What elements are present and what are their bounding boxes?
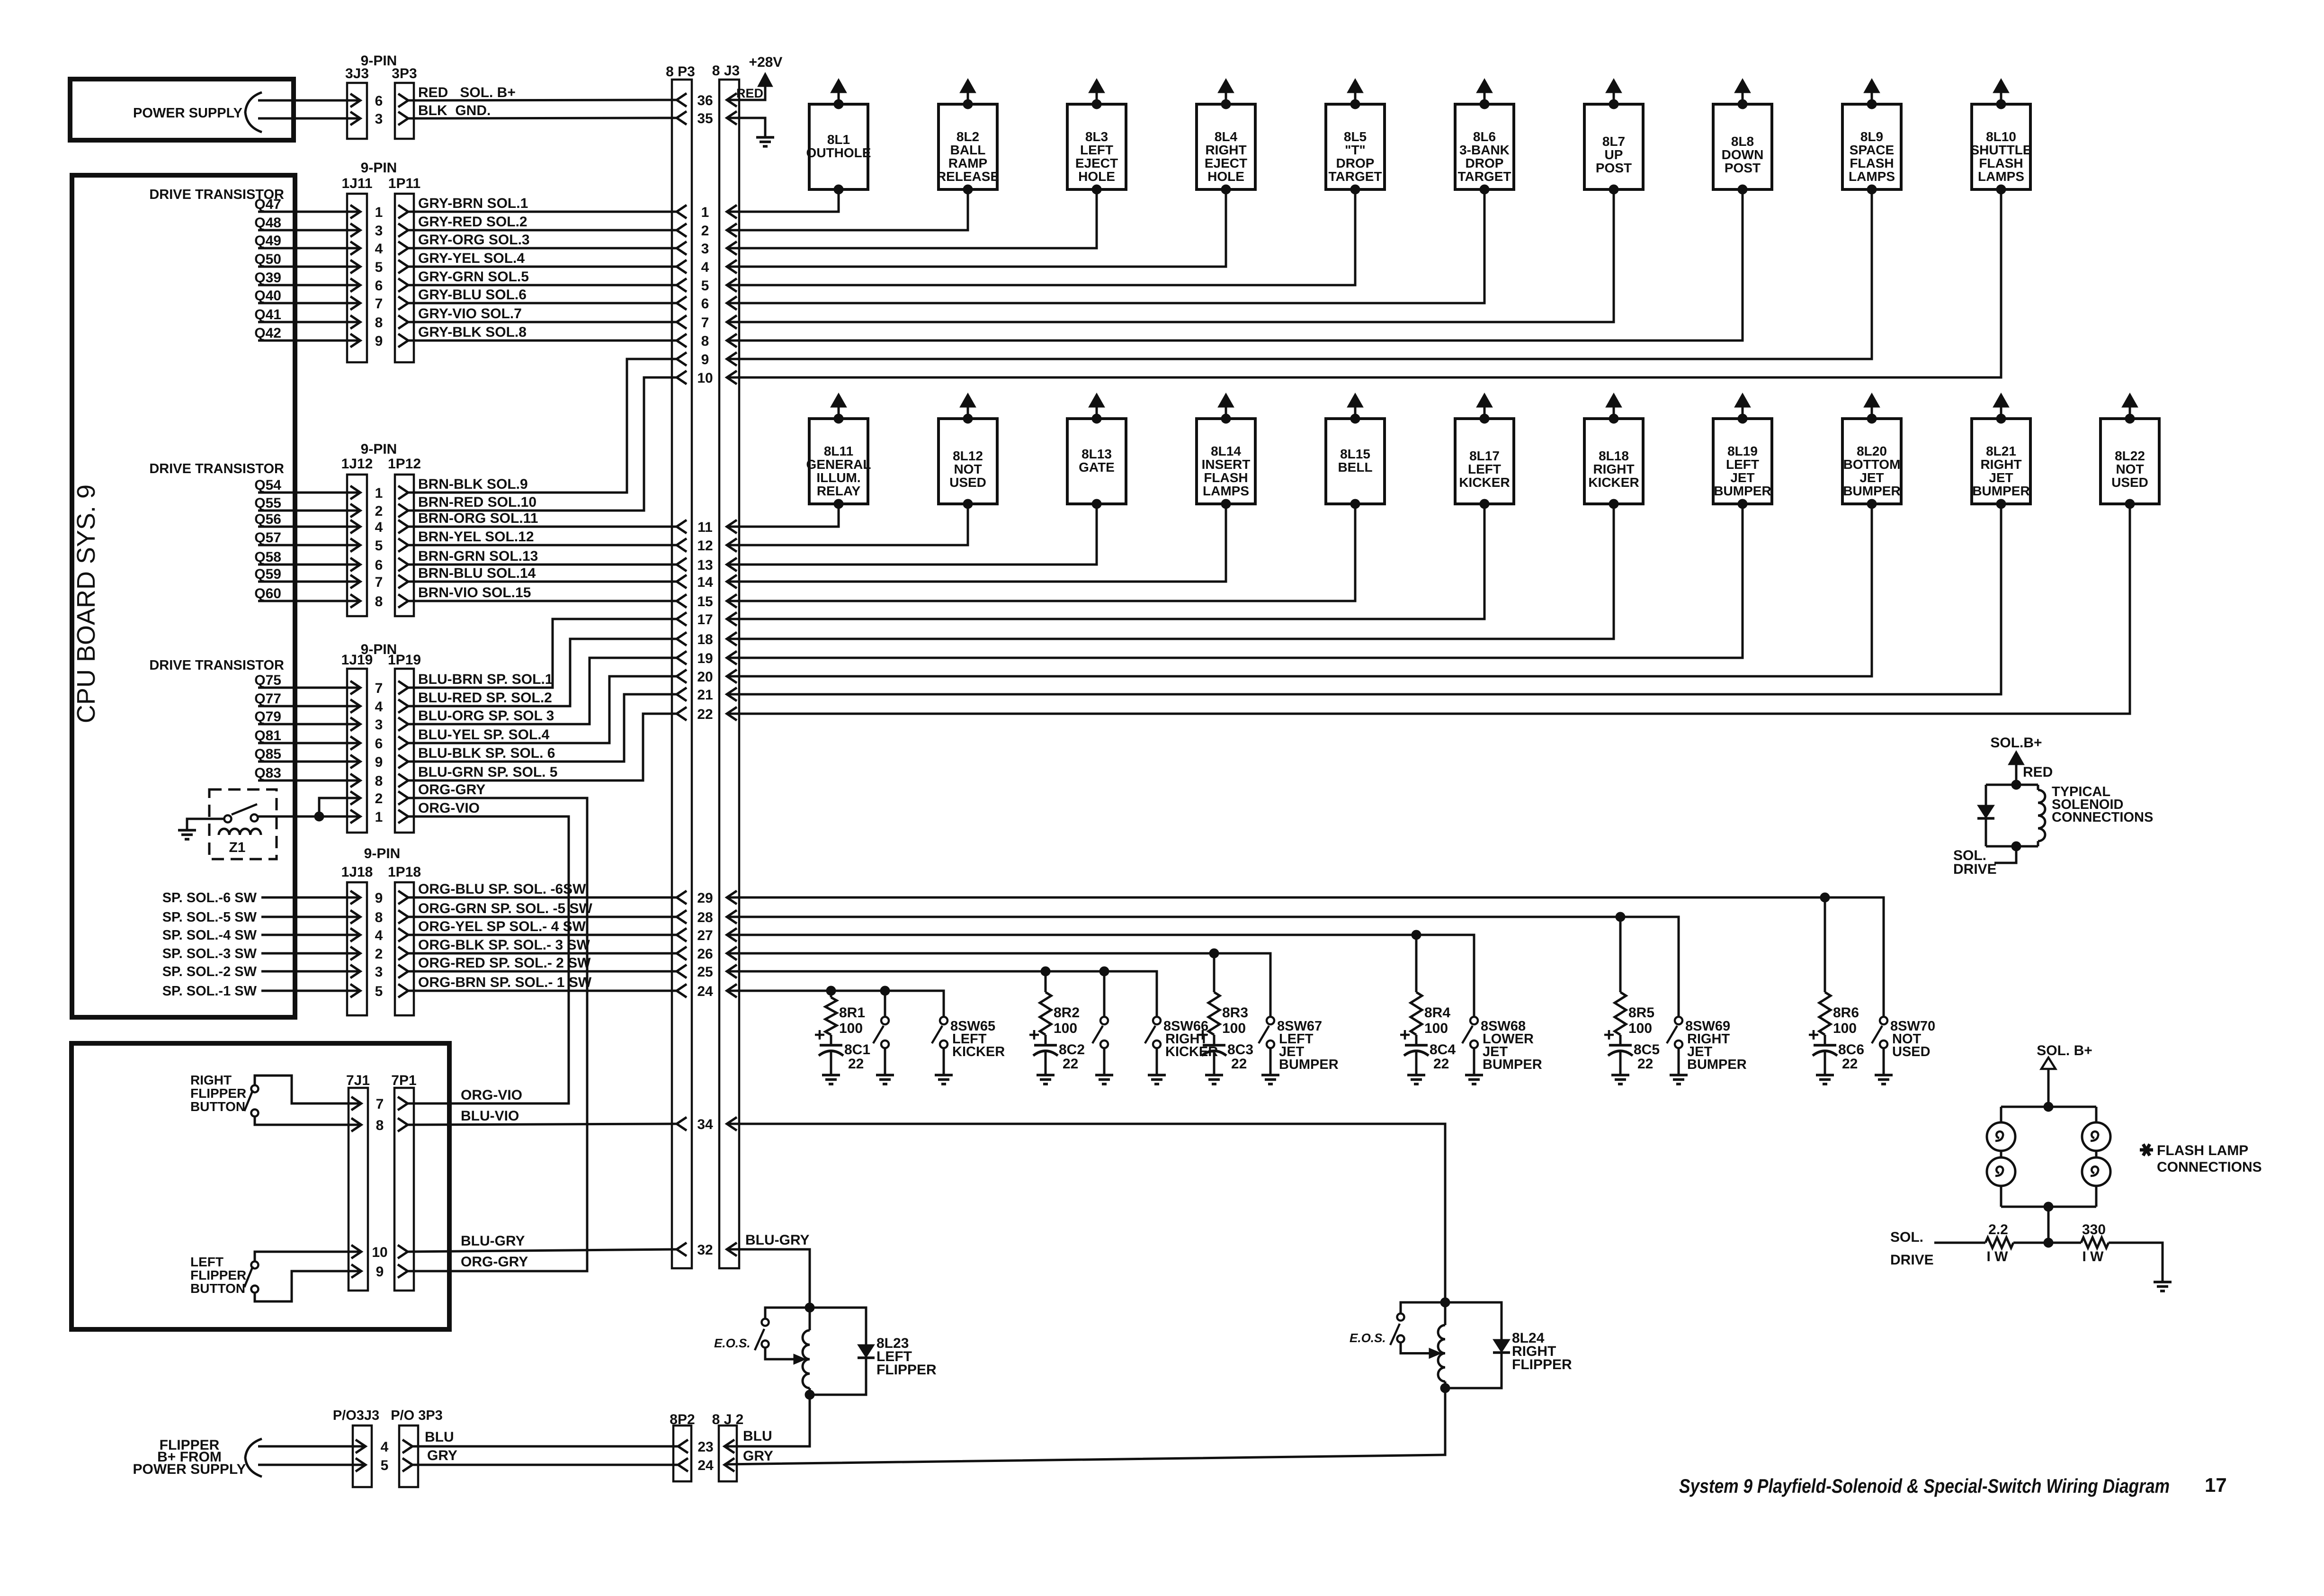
wire 8SW67 to ground bbox=[1269, 1048, 1272, 1075]
ground 8SW70 bbox=[1875, 1074, 1893, 1076]
svg-text:GRY-GRN SOL.5: GRY-GRN SOL.5 bbox=[418, 269, 529, 285]
pin 27 8P3 bbox=[677, 928, 687, 941]
pin 23 8P2 bbox=[678, 1440, 688, 1453]
svg-text:OUTHOLE: OUTHOLE bbox=[806, 145, 871, 160]
solenoid box 8L5 bbox=[1326, 104, 1385, 189]
solenoid box 8L6 bbox=[1455, 104, 1514, 189]
svg-text:3: 3 bbox=[375, 717, 383, 733]
svg-text:100: 100 bbox=[1222, 1021, 1246, 1036]
svg-text:17: 17 bbox=[697, 612, 713, 628]
connector 1P12 bbox=[395, 475, 414, 616]
pin 3 1P18 bbox=[398, 965, 408, 978]
switch 8SW67 bbox=[1267, 1017, 1274, 1024]
junction dot 8R5 bbox=[1616, 912, 1625, 922]
wire 8R3 top bbox=[1213, 953, 1216, 992]
pin 34 8J3 bbox=[727, 1117, 737, 1130]
solenoid bottom dot 8L19 bbox=[1738, 499, 1747, 509]
svg-text:8: 8 bbox=[375, 315, 383, 331]
junction dot switch x1869 bbox=[880, 986, 890, 995]
svg-text:BLU-RED SP. SOL.2: BLU-RED SP. SOL.2 bbox=[418, 690, 552, 706]
svg-text:8L14: 8L14 bbox=[1211, 444, 1241, 458]
wire BRN-RED SOL.10 to 8P3 pin 10 bbox=[408, 377, 677, 511]
pin 5 P/O 3P3 bbox=[402, 1458, 412, 1471]
right flipper button contact bottom bbox=[251, 1110, 259, 1117]
solenoid arrow 8L7 bbox=[1606, 79, 1622, 93]
wire SP.SOL 1P19 y1608 to 8P3 pin 21 bbox=[408, 694, 677, 762]
svg-text:JET: JET bbox=[1989, 470, 2013, 485]
resistor 8R3 bbox=[1208, 992, 1220, 1035]
wire ORG-BLU SP. SOL. -6SW 1P18 to 8P3 pin 29 bbox=[408, 897, 677, 899]
svg-text:100: 100 bbox=[1424, 1021, 1448, 1036]
svg-text:10: 10 bbox=[697, 370, 713, 386]
wire 8R4 to 8C4 bbox=[1415, 1035, 1418, 1045]
svg-text:7P1: 7P1 bbox=[391, 1073, 416, 1088]
wire branch to 1J19 pin 2 bbox=[319, 798, 360, 816]
wire Q83 to 1J19 bbox=[258, 780, 360, 782]
pin 4 P/O3J3 bbox=[356, 1440, 366, 1453]
wire SP.SOL 1P19 y1648 to 8P3 pin 22 bbox=[408, 714, 677, 780]
relay Z1 dashed box bbox=[209, 789, 277, 859]
wire 8L3 to 8J3 pin 3 bbox=[727, 189, 1097, 248]
pin 8 8J3 bbox=[727, 334, 737, 347]
solenoid top dot 8L5 bbox=[1350, 99, 1360, 109]
svg-text:EJECT: EJECT bbox=[1075, 156, 1118, 170]
svg-text:RIGHT: RIGHT bbox=[1205, 143, 1246, 157]
pin 2 1P19 bbox=[398, 791, 408, 805]
pin 19 8J3 bbox=[727, 651, 737, 664]
wire SP.SOL 1P19 y1529 to 8P3 pin 19 bbox=[408, 658, 677, 724]
connector 7P1 bbox=[394, 1088, 414, 1291]
solenoid arrow 8L17 bbox=[1476, 393, 1493, 407]
wire 330 to ground bbox=[2109, 1243, 2163, 1281]
wire GRY-BLU SOL.6 1P11 to 8P3 pin 6 bbox=[408, 302, 677, 305]
pin 8 1P18 bbox=[398, 910, 408, 924]
wire SP. SOL.-3 SW to 1J18 bbox=[261, 952, 360, 955]
wire ORG-GRY 7P1 pin 9 bbox=[408, 1270, 587, 1273]
svg-text:POWER SUPPLY: POWER SUPPLY bbox=[133, 106, 242, 121]
wire 8L22 to 8J3 pin 22 bbox=[727, 504, 2130, 714]
pin 8 8P3 bbox=[677, 334, 687, 347]
svg-text:8C2: 8C2 bbox=[1059, 1042, 1085, 1058]
wire 8R3 to 8C3 bbox=[1213, 1035, 1216, 1045]
wire 8C6 to ground bbox=[1824, 1051, 1826, 1075]
ground 8C4 bbox=[1407, 1074, 1425, 1076]
arrow SOL. B+ (flash) bbox=[2041, 1058, 2056, 1069]
connector 8J3 bbox=[719, 80, 739, 1268]
svg-text:8L17: 8L17 bbox=[1469, 448, 1500, 463]
svg-text:POST: POST bbox=[1725, 161, 1761, 175]
pin 1 1P19 bbox=[398, 810, 408, 823]
svg-text:ORG-RED SP. SOL.- 2 SW: ORG-RED SP. SOL.- 2 SW bbox=[418, 955, 591, 971]
svg-text:1J11: 1J11 bbox=[341, 176, 372, 191]
pin 35 8P3 bbox=[677, 111, 687, 125]
svg-text:8 J3: 8 J3 bbox=[712, 63, 740, 79]
wire 8SW68 to ground bbox=[1473, 1048, 1475, 1075]
pin 26 8P3 bbox=[677, 947, 687, 960]
svg-text:INSERT: INSERT bbox=[1202, 457, 1251, 472]
svg-text:8L20: 8L20 bbox=[1857, 444, 1887, 458]
svg-text:RAMP: RAMP bbox=[948, 156, 987, 170]
svg-text:LAMPS: LAMPS bbox=[1203, 484, 1249, 498]
wire 8L1 to 8J3 pin 1 bbox=[727, 189, 839, 212]
pin 34 8P3 bbox=[677, 1117, 687, 1130]
svg-text:UP: UP bbox=[1605, 147, 1623, 162]
svg-text:100: 100 bbox=[1833, 1021, 1857, 1036]
wire Z1 switch to 1J19 pin 1 bbox=[258, 816, 360, 818]
wire GRY P/O3P3 to 8P2 pin 24 bbox=[412, 1464, 678, 1466]
solenoid box 8L7 bbox=[1584, 104, 1643, 189]
solenoid arrow 8L22 bbox=[2122, 393, 2138, 407]
svg-text:GRY: GRY bbox=[743, 1448, 773, 1464]
pin 4 8J3 bbox=[727, 260, 737, 273]
connector P/O 3P3 bbox=[399, 1426, 418, 1487]
svg-text:35: 35 bbox=[697, 111, 713, 126]
pin 25 8P3 bbox=[677, 965, 687, 978]
svg-text:DRIVE TRANSISTOR: DRIVE TRANSISTOR bbox=[149, 658, 284, 673]
junction dot bottom left flipper 8L23 bbox=[805, 1390, 814, 1399]
pin 12 8J3 bbox=[727, 538, 737, 552]
svg-text:RELEASE: RELEASE bbox=[937, 169, 999, 184]
solenoid top dot 8L14 bbox=[1221, 414, 1231, 423]
wire 8R2 to 8C2 bbox=[1045, 1035, 1047, 1045]
svg-text:FLIPPER: FLIPPER bbox=[1512, 1357, 1572, 1372]
wire 8J3 pin 34 BLU-VIO to right flipper bbox=[727, 1124, 1445, 1302]
solenoid box 8L17 bbox=[1455, 419, 1514, 504]
solenoid box 8L11 bbox=[809, 419, 868, 504]
wire ORG-GRY 1P19 to 7P1 pin 9 bbox=[408, 798, 587, 1271]
svg-text:3: 3 bbox=[701, 241, 709, 257]
wire Q81 to 1J19 bbox=[258, 742, 360, 744]
wire left flipper bottom contact to 7J1 pin 9 bbox=[255, 1271, 361, 1301]
wire 8C4 to ground bbox=[1415, 1051, 1418, 1075]
svg-text:FLASH: FLASH bbox=[1204, 470, 1248, 485]
pin 3 1J19 bbox=[350, 717, 360, 731]
svg-text:Q77: Q77 bbox=[254, 691, 281, 707]
solenoid bottom dot 8L17 bbox=[1480, 499, 1489, 509]
wire BLK GND. 3P3 to 8P3 pin 35 bbox=[408, 118, 677, 118]
connector 8P2 bbox=[673, 1426, 691, 1481]
pin 4 1P12 bbox=[398, 520, 408, 533]
wire Q48 to 1J11 bbox=[258, 229, 360, 232]
svg-text:4: 4 bbox=[375, 699, 383, 715]
solenoid top dot 8L22 bbox=[2125, 414, 2135, 423]
svg-text:29: 29 bbox=[697, 890, 713, 906]
left flipper button contact bottom bbox=[251, 1286, 259, 1293]
pin 15 8P3 bbox=[677, 594, 687, 608]
pin 29 8J3 bbox=[727, 891, 737, 904]
solenoid bottom dot 8L20 bbox=[1867, 499, 1877, 509]
pin 3 1P19 bbox=[398, 717, 408, 731]
solenoid top dot 8L10 bbox=[1996, 99, 2006, 109]
ground 8C6 bbox=[1816, 1074, 1834, 1076]
wire 8L9 to 8J3 pin 9 bbox=[727, 189, 1872, 359]
svg-text:RIGHT: RIGHT bbox=[1593, 462, 1634, 476]
wire 8L11 to 8J3 pin 11 bbox=[727, 504, 839, 527]
wire 8C3 to ground bbox=[1213, 1051, 1216, 1075]
pin 11 8P3 bbox=[677, 520, 687, 533]
svg-text:9-PIN: 9-PIN bbox=[361, 160, 397, 176]
wire 8L7 to 8J3 pin 7 bbox=[727, 189, 1614, 322]
connector 1P18 bbox=[395, 882, 414, 1015]
svg-text:8R3: 8R3 bbox=[1222, 1005, 1248, 1021]
wire BLU P/O3P3 to 8P2 pin 23 bbox=[412, 1445, 678, 1448]
wire Q58 to 1J12 bbox=[258, 564, 360, 566]
junction dot resistor row bbox=[2044, 1238, 2053, 1247]
ground 8SW68 bbox=[1465, 1074, 1483, 1076]
label FLASH LAMP CONNECTIONS bbox=[2140, 1148, 2153, 1152]
solenoid bottom dot 8L12 bbox=[963, 499, 973, 509]
wire 8J3 pin 32 BLU-GRY to left flipper bbox=[727, 1249, 810, 1308]
pin 4 1J18 bbox=[350, 928, 360, 941]
wire BLU-VIO 7P1 pin 8 to 8P3 pin 34 bbox=[408, 1124, 677, 1125]
svg-text:6: 6 bbox=[375, 93, 383, 109]
svg-text:ORG-YEL SP SOL.- 4 SW: ORG-YEL SP SOL.- 4 SW bbox=[418, 919, 586, 934]
connector 8P3 bbox=[672, 80, 692, 1268]
solenoid bottom dot 8L13 bbox=[1092, 499, 1101, 509]
svg-text:SOL.: SOL. bbox=[1890, 1229, 1923, 1245]
svg-text:3: 3 bbox=[375, 964, 383, 980]
connector 3J3 bbox=[347, 83, 367, 139]
svg-text:3J3: 3J3 bbox=[345, 66, 369, 81]
pin 1 8P3 bbox=[677, 205, 687, 218]
svg-text:DRIVE TRANSISTOR: DRIVE TRANSISTOR bbox=[149, 461, 284, 476]
svg-text:BLU-BLK SP. SOL. 6: BLU-BLK SP. SOL. 6 bbox=[418, 745, 555, 761]
solenoid top dot 8L21 bbox=[1996, 414, 2006, 423]
E.O.S. contact bottom left flipper 8L23 bbox=[762, 1341, 769, 1348]
junction dot Z1 wire bbox=[314, 812, 324, 821]
junction dot flash top bbox=[2044, 1102, 2053, 1112]
pin 7 1J11 bbox=[350, 296, 360, 310]
wire SOL.12 1P12 to 8P3 pin 12 bbox=[408, 544, 677, 547]
svg-text:1: 1 bbox=[375, 485, 383, 501]
wire Q55 to 1J12 bbox=[258, 510, 360, 512]
svg-text:22: 22 bbox=[1063, 1056, 1078, 1072]
svg-text:ORG-BRN SP. SOL.- 1 SW: ORG-BRN SP. SOL.- 1 SW bbox=[418, 975, 592, 990]
svg-text:USED: USED bbox=[2111, 475, 2148, 490]
svg-text:USED: USED bbox=[949, 475, 986, 490]
connector 8J2 bbox=[719, 1426, 737, 1481]
pin 5 1J12 bbox=[350, 538, 360, 552]
svg-text:Q83: Q83 bbox=[254, 765, 281, 781]
svg-text:8: 8 bbox=[701, 333, 709, 349]
wire right flipper to 8J2 pin 24 GRY bbox=[724, 1388, 1445, 1464]
wire 8J3 pin 26 to switch 8SW67 bbox=[727, 953, 1270, 1017]
svg-text:ORG-GRN SP. SOL. -5 SW: ORG-GRN SP. SOL. -5 SW bbox=[418, 901, 593, 916]
wire 8L8 to 8J3 pin 8 bbox=[727, 189, 1743, 341]
svg-text:BLU-VIO: BLU-VIO bbox=[461, 1108, 519, 1124]
svg-text:2: 2 bbox=[375, 791, 383, 807]
pin 6 1P12 bbox=[398, 558, 408, 571]
svg-text:SPACE: SPACE bbox=[1850, 143, 1894, 157]
solenoid bottom dot 8L18 bbox=[1609, 499, 1618, 509]
svg-text:18: 18 bbox=[697, 632, 713, 647]
svg-text:BRN-BLU SOL.14: BRN-BLU SOL.14 bbox=[418, 565, 536, 581]
solenoid arrow 8L3 bbox=[1089, 79, 1105, 93]
connector 1J19 bbox=[347, 669, 367, 833]
svg-text:USED: USED bbox=[1892, 1044, 1931, 1059]
solenoid arrow 8L15 bbox=[1347, 393, 1363, 407]
svg-text:8R5: 8R5 bbox=[1628, 1005, 1654, 1021]
pin 4 1J19 bbox=[350, 699, 360, 713]
solenoid arrow 8L13 bbox=[1089, 393, 1105, 407]
wire RED SOL. B+ 3P3 to 8P3 pin 36 bbox=[408, 100, 677, 100]
flash lamp upper right bbox=[2082, 1122, 2110, 1151]
svg-text:BUMPER: BUMPER bbox=[1483, 1057, 1542, 1072]
solenoid bottom dot 8L9 bbox=[1867, 185, 1877, 194]
wire 8R4 top bbox=[1415, 935, 1418, 992]
ground 8J3 pin 35 bbox=[756, 136, 774, 139]
svg-text:DOWN: DOWN bbox=[1722, 147, 1764, 162]
typical solenoid loop bottom bbox=[1986, 845, 2038, 848]
pin 3 8J3 bbox=[727, 242, 737, 255]
svg-text:BLU: BLU bbox=[425, 1429, 454, 1445]
solenoid top dot 8L7 bbox=[1609, 99, 1618, 109]
pin 7 1P12 bbox=[398, 575, 408, 588]
solenoid top dot 8L9 bbox=[1867, 99, 1877, 109]
pin 6 8P3 bbox=[677, 296, 687, 310]
svg-text:FLASH LAMP: FLASH LAMP bbox=[2157, 1143, 2248, 1158]
svg-text:8L3: 8L3 bbox=[1085, 129, 1108, 144]
flipper button box bbox=[72, 1043, 449, 1329]
connector 1J11 bbox=[347, 194, 367, 362]
flash lamp box left bbox=[2000, 1107, 2002, 1123]
wire SOL DRIVE to resistor 2.2 bbox=[1934, 1242, 1985, 1244]
flash lamp lower right bbox=[2082, 1157, 2110, 1186]
wire SOL.15 1P12 to 8P3 pin 15 bbox=[408, 600, 677, 602]
svg-text:Q56: Q56 bbox=[254, 511, 281, 527]
svg-text:24: 24 bbox=[697, 1458, 714, 1473]
svg-text:11: 11 bbox=[697, 520, 713, 535]
svg-text:ILLUM.: ILLUM. bbox=[816, 470, 860, 485]
wire Z1 to ground bbox=[187, 819, 224, 829]
wire Q47 to 1J11 bbox=[258, 211, 360, 213]
ground unnamed switch x2332 bbox=[1095, 1074, 1113, 1076]
pin 5 1P12 bbox=[398, 538, 408, 552]
svg-text:4: 4 bbox=[375, 520, 383, 535]
switch 8SW68 bbox=[1470, 1017, 1478, 1024]
diode left flipper 8L23 bbox=[810, 1308, 866, 1345]
Z1 switch blade bbox=[232, 804, 257, 815]
svg-text:SOL. B+: SOL. B+ bbox=[2037, 1043, 2092, 1058]
solenoid box 8L15 bbox=[1326, 419, 1385, 504]
svg-text:GRY-YEL SOL.4: GRY-YEL SOL.4 bbox=[418, 251, 525, 266]
pin 4 1P11 bbox=[398, 242, 408, 255]
svg-text:3: 3 bbox=[375, 111, 383, 127]
solenoid top dot 8L17 bbox=[1480, 414, 1489, 423]
coil left flipper 8L23 bbox=[809, 1308, 811, 1330]
svg-text:Q39: Q39 bbox=[254, 270, 281, 286]
svg-text:POWER SUPPLY: POWER SUPPLY bbox=[133, 1462, 246, 1477]
pin 24 8J2 bbox=[724, 1458, 734, 1471]
svg-text:FLIPPER: FLIPPER bbox=[876, 1362, 937, 1378]
solenoid arrow 8L2 bbox=[960, 79, 976, 93]
wire ORG-VIO 1P19 to 7P1 pin 7 bbox=[408, 816, 569, 1103]
E.O.S. contact top right flipper 8L24 bbox=[1397, 1314, 1404, 1321]
pin 8 1J19 bbox=[350, 774, 360, 787]
svg-text:7: 7 bbox=[375, 574, 383, 590]
pin 20 8P3 bbox=[677, 670, 687, 683]
pin 7 1P11 bbox=[398, 296, 408, 310]
pin 7 8J3 bbox=[727, 315, 737, 329]
svg-text:BLU-GRN SP. SOL. 5: BLU-GRN SP. SOL. 5 bbox=[418, 764, 558, 780]
solenoid box 8L19 bbox=[1713, 419, 1772, 504]
svg-text:8: 8 bbox=[375, 773, 383, 789]
wire 8J3 pin 28 to switch 8SW69 bbox=[727, 917, 1679, 1017]
svg-text:8: 8 bbox=[375, 910, 383, 925]
wire SOL.14 1P12 to 8P3 pin 14 bbox=[408, 581, 677, 583]
svg-text:22: 22 bbox=[1433, 1056, 1449, 1072]
svg-text:LEFT: LEFT bbox=[1726, 457, 1759, 472]
pin 18 8P3 bbox=[677, 632, 687, 646]
svg-text:8L4: 8L4 bbox=[1215, 129, 1238, 144]
pin 1 1J12 bbox=[350, 486, 360, 499]
wire SP.SOL 1P19 y1491 to 8P3 pin 18 bbox=[408, 639, 677, 706]
pin 32 8P3 bbox=[677, 1243, 687, 1256]
svg-text:GRY-VIO SOL.7: GRY-VIO SOL.7 bbox=[418, 306, 522, 322]
solenoid arrow 8L21 bbox=[1993, 393, 2009, 407]
pin 4 P/O 3P3 bbox=[402, 1440, 412, 1453]
wire Q59 to 1J12 bbox=[258, 581, 360, 583]
svg-text:LAMPS: LAMPS bbox=[1849, 169, 1895, 184]
svg-text:LEFT: LEFT bbox=[1080, 143, 1113, 157]
wire 8J3 pin 24 to switch 8SW65 bbox=[727, 991, 944, 1017]
diode right flipper 8L24 bbox=[1445, 1302, 1502, 1339]
wire flipper B+ to P/O3J3 pin 4 bbox=[258, 1445, 366, 1448]
pin 12 8P3 bbox=[677, 538, 687, 552]
svg-text:8L13: 8L13 bbox=[1082, 447, 1112, 461]
capacitor 8C3 bbox=[1203, 1044, 1225, 1047]
pin 6 1J19 bbox=[350, 736, 360, 750]
resistor 8R2 bbox=[1040, 992, 1051, 1035]
wire SP. SOL.-2 SW to 1J18 bbox=[261, 970, 360, 973]
wire 8L6 to 8J3 pin 6 bbox=[727, 189, 1484, 303]
svg-text:BLU-BRN SP. SOL.1: BLU-BRN SP. SOL.1 bbox=[418, 672, 553, 687]
pin 22 8P3 bbox=[677, 707, 687, 720]
pin 4 1J12 bbox=[350, 520, 360, 533]
wire 8C1 to ground bbox=[830, 1051, 832, 1075]
svg-text:6: 6 bbox=[701, 296, 709, 312]
wire flash box to resistor row bbox=[2047, 1207, 2050, 1243]
svg-text:Q59: Q59 bbox=[254, 566, 281, 582]
svg-text:BALL: BALL bbox=[950, 143, 986, 157]
solenoid bottom dot 8L4 bbox=[1221, 185, 1231, 194]
svg-text:1P18: 1P18 bbox=[388, 864, 421, 880]
svg-text:SP. SOL.-2 SW: SP. SOL.-2 SW bbox=[162, 964, 257, 979]
switch 8SW69 bbox=[1675, 1017, 1682, 1024]
wire 2.2 to junction bbox=[2013, 1242, 2048, 1244]
pin 23 8J2 bbox=[724, 1440, 734, 1453]
wire to unnamed switch x1869 bbox=[884, 991, 886, 1017]
svg-text:8C4: 8C4 bbox=[1430, 1042, 1456, 1058]
pin 5 1P18 bbox=[398, 984, 408, 997]
svg-text:BRN-BLK SOL.9: BRN-BLK SOL.9 bbox=[418, 476, 528, 492]
capacitor 8C4 bbox=[1405, 1044, 1428, 1047]
pin 21 8P3 bbox=[677, 688, 687, 701]
pin 3 1P11 bbox=[398, 224, 408, 237]
pin 6 8J3 bbox=[727, 296, 737, 310]
pin 5 8J3 bbox=[727, 278, 737, 292]
wire 8J3 pin 35 to ground bbox=[727, 118, 765, 136]
solenoid bottom dot 8L14 bbox=[1221, 499, 1231, 509]
svg-text:9-PIN: 9-PIN bbox=[361, 441, 397, 457]
svg-text:5: 5 bbox=[375, 260, 383, 275]
solenoid box 8L4 bbox=[1197, 104, 1255, 189]
resistor 8R1 bbox=[825, 997, 837, 1035]
svg-text:8 P3: 8 P3 bbox=[666, 64, 695, 80]
svg-text:Q41: Q41 bbox=[254, 307, 281, 323]
pin 36 8P3 bbox=[677, 93, 687, 107]
pin 10 8P3 bbox=[677, 371, 687, 384]
